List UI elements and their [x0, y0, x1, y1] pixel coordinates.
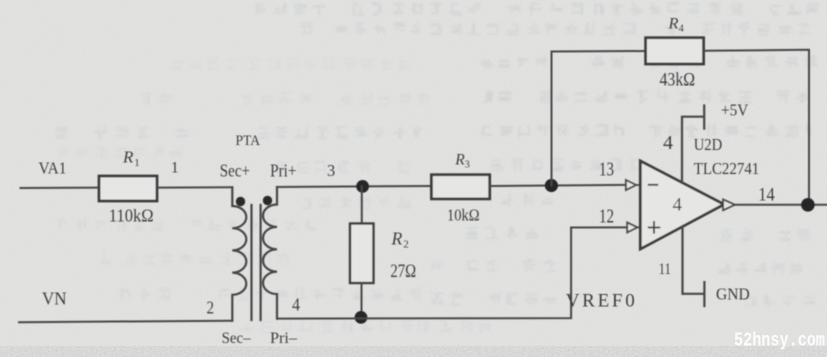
- pin 4 label (transformer): [292, 294, 300, 314]
- pin 14 label: [758, 185, 775, 206]
- svg-text:R: R: [122, 148, 134, 167]
- wire node3 down to R2: [361, 186, 363, 223]
- plus sign: [649, 222, 660, 233]
- label Sec-: [222, 330, 252, 347]
- svg-text:2: 2: [403, 239, 409, 251]
- junction below R2: [355, 311, 368, 324]
- label VA1: [39, 158, 67, 177]
- node 1 label: [171, 160, 179, 177]
- svg-text:GND: GND: [716, 285, 750, 304]
- resistor R4: [646, 38, 704, 64]
- svg-text:Sec–: Sec–: [222, 330, 252, 347]
- svg-text:4: 4: [679, 24, 684, 35]
- wire Pri+ to node 3: [277, 186, 431, 187]
- label U2D: [694, 135, 723, 154]
- label R2: [391, 228, 409, 250]
- wire R3 to node A: [490, 185, 626, 186]
- label R3: [454, 152, 470, 171]
- svg-text:1: 1: [171, 160, 179, 177]
- label +5V: [721, 100, 749, 119]
- label VN: [42, 289, 67, 309]
- power +5V rail: [682, 106, 704, 183]
- label Pri+: [270, 160, 297, 180]
- polarity dot right: [263, 196, 272, 205]
- svg-text:VN: VN: [42, 289, 67, 309]
- svg-text:TLC22741: TLC22741: [694, 159, 760, 178]
- transformer core: [252, 205, 261, 320]
- value 10kΩ: [447, 206, 480, 225]
- output arrow pin 14: [723, 199, 735, 210]
- input arrow pin 13: [626, 180, 640, 190]
- resistor R1: [99, 176, 157, 201]
- resistor R2: [350, 224, 374, 284]
- svg-text:4: 4: [292, 294, 300, 314]
- svg-text:4: 4: [663, 132, 673, 154]
- watermark: [734, 330, 825, 352]
- label PTA: [236, 133, 261, 149]
- svg-text:13: 13: [599, 158, 614, 180]
- svg-text:R: R: [391, 228, 403, 248]
- svg-text:43kΩ: 43kΩ: [660, 70, 696, 91]
- value 43kΩ: [660, 70, 696, 91]
- svg-text:27Ω: 27Ω: [390, 261, 416, 282]
- ground pin 11: [683, 227, 705, 306]
- svg-text:U2D: U2D: [694, 135, 723, 154]
- node 3 label: [327, 161, 335, 180]
- pin 2 label: [207, 297, 215, 317]
- wire VA1 input to R1: [21, 187, 100, 189]
- label R4: [668, 14, 684, 35]
- label R1: [122, 148, 140, 170]
- polarity dot left: [236, 197, 245, 206]
- svg-text:14: 14: [758, 185, 775, 206]
- label Sec+: [220, 160, 250, 180]
- svg-text:10kΩ: 10kΩ: [447, 206, 480, 225]
- wire R4 to output node: [704, 50, 809, 205]
- svg-text:VREF0: VREF0: [566, 291, 635, 312]
- svg-text:3: 3: [465, 160, 470, 171]
- svg-text:R: R: [454, 152, 465, 169]
- svg-text:Sec+: Sec+: [220, 160, 250, 180]
- svg-text:4: 4: [673, 195, 683, 216]
- pin 12 label: [599, 205, 614, 227]
- transformer T1 secondary winding (right): [263, 187, 277, 319]
- wire output to node B: [735, 204, 827, 206]
- pin 4 label (power): [663, 132, 673, 154]
- pin 13 label: [599, 158, 614, 180]
- svg-text:PTA: PTA: [236, 133, 261, 149]
- input arrow pin 12: [627, 222, 640, 232]
- svg-text:11: 11: [659, 261, 671, 278]
- svg-text:3: 3: [327, 161, 335, 180]
- wire R2 to bottom junction: [361, 283, 363, 318]
- svg-text:VA1: VA1: [39, 158, 67, 177]
- transformer T1 primary winding (left): [232, 187, 246, 320]
- pin 11 label: [659, 261, 671, 278]
- resistor R3: [431, 175, 489, 199]
- junction node B (output): [801, 198, 815, 212]
- svg-text:2: 2: [207, 297, 215, 317]
- junction node A: [545, 179, 558, 192]
- svg-text:110kΩ: 110kΩ: [109, 206, 154, 226]
- wire VN bottom left: [19, 321, 232, 323]
- label VREF0: [566, 291, 635, 312]
- label 4 inside op-amp: [673, 195, 683, 216]
- wire bottom VREF run: [277, 228, 571, 319]
- junction node 3: [356, 180, 369, 193]
- value 110kΩ: [109, 206, 154, 226]
- svg-text:R: R: [668, 14, 679, 33]
- op-amp U2D: [640, 161, 724, 249]
- label GND: [716, 285, 750, 304]
- svg-text:52hnsy.com: 52hnsy.com: [734, 330, 825, 352]
- svg-text:Pri–: Pri–: [270, 330, 298, 347]
- feedback wire up to R4: [552, 51, 646, 186]
- svg-text:+5V: +5V: [721, 100, 749, 119]
- svg-text:12: 12: [599, 205, 614, 227]
- svg-text:1: 1: [134, 157, 140, 169]
- label Pri-: [270, 330, 298, 347]
- minus sign: [649, 184, 657, 186]
- label TLC22741: [694, 159, 760, 178]
- wire R1 to transformer Sec+: [157, 186, 232, 188]
- value 27Ω: [390, 261, 416, 282]
- svg-text:Pri+: Pri+: [270, 160, 297, 180]
- wire pin12 to op-amp: [571, 226, 627, 228]
